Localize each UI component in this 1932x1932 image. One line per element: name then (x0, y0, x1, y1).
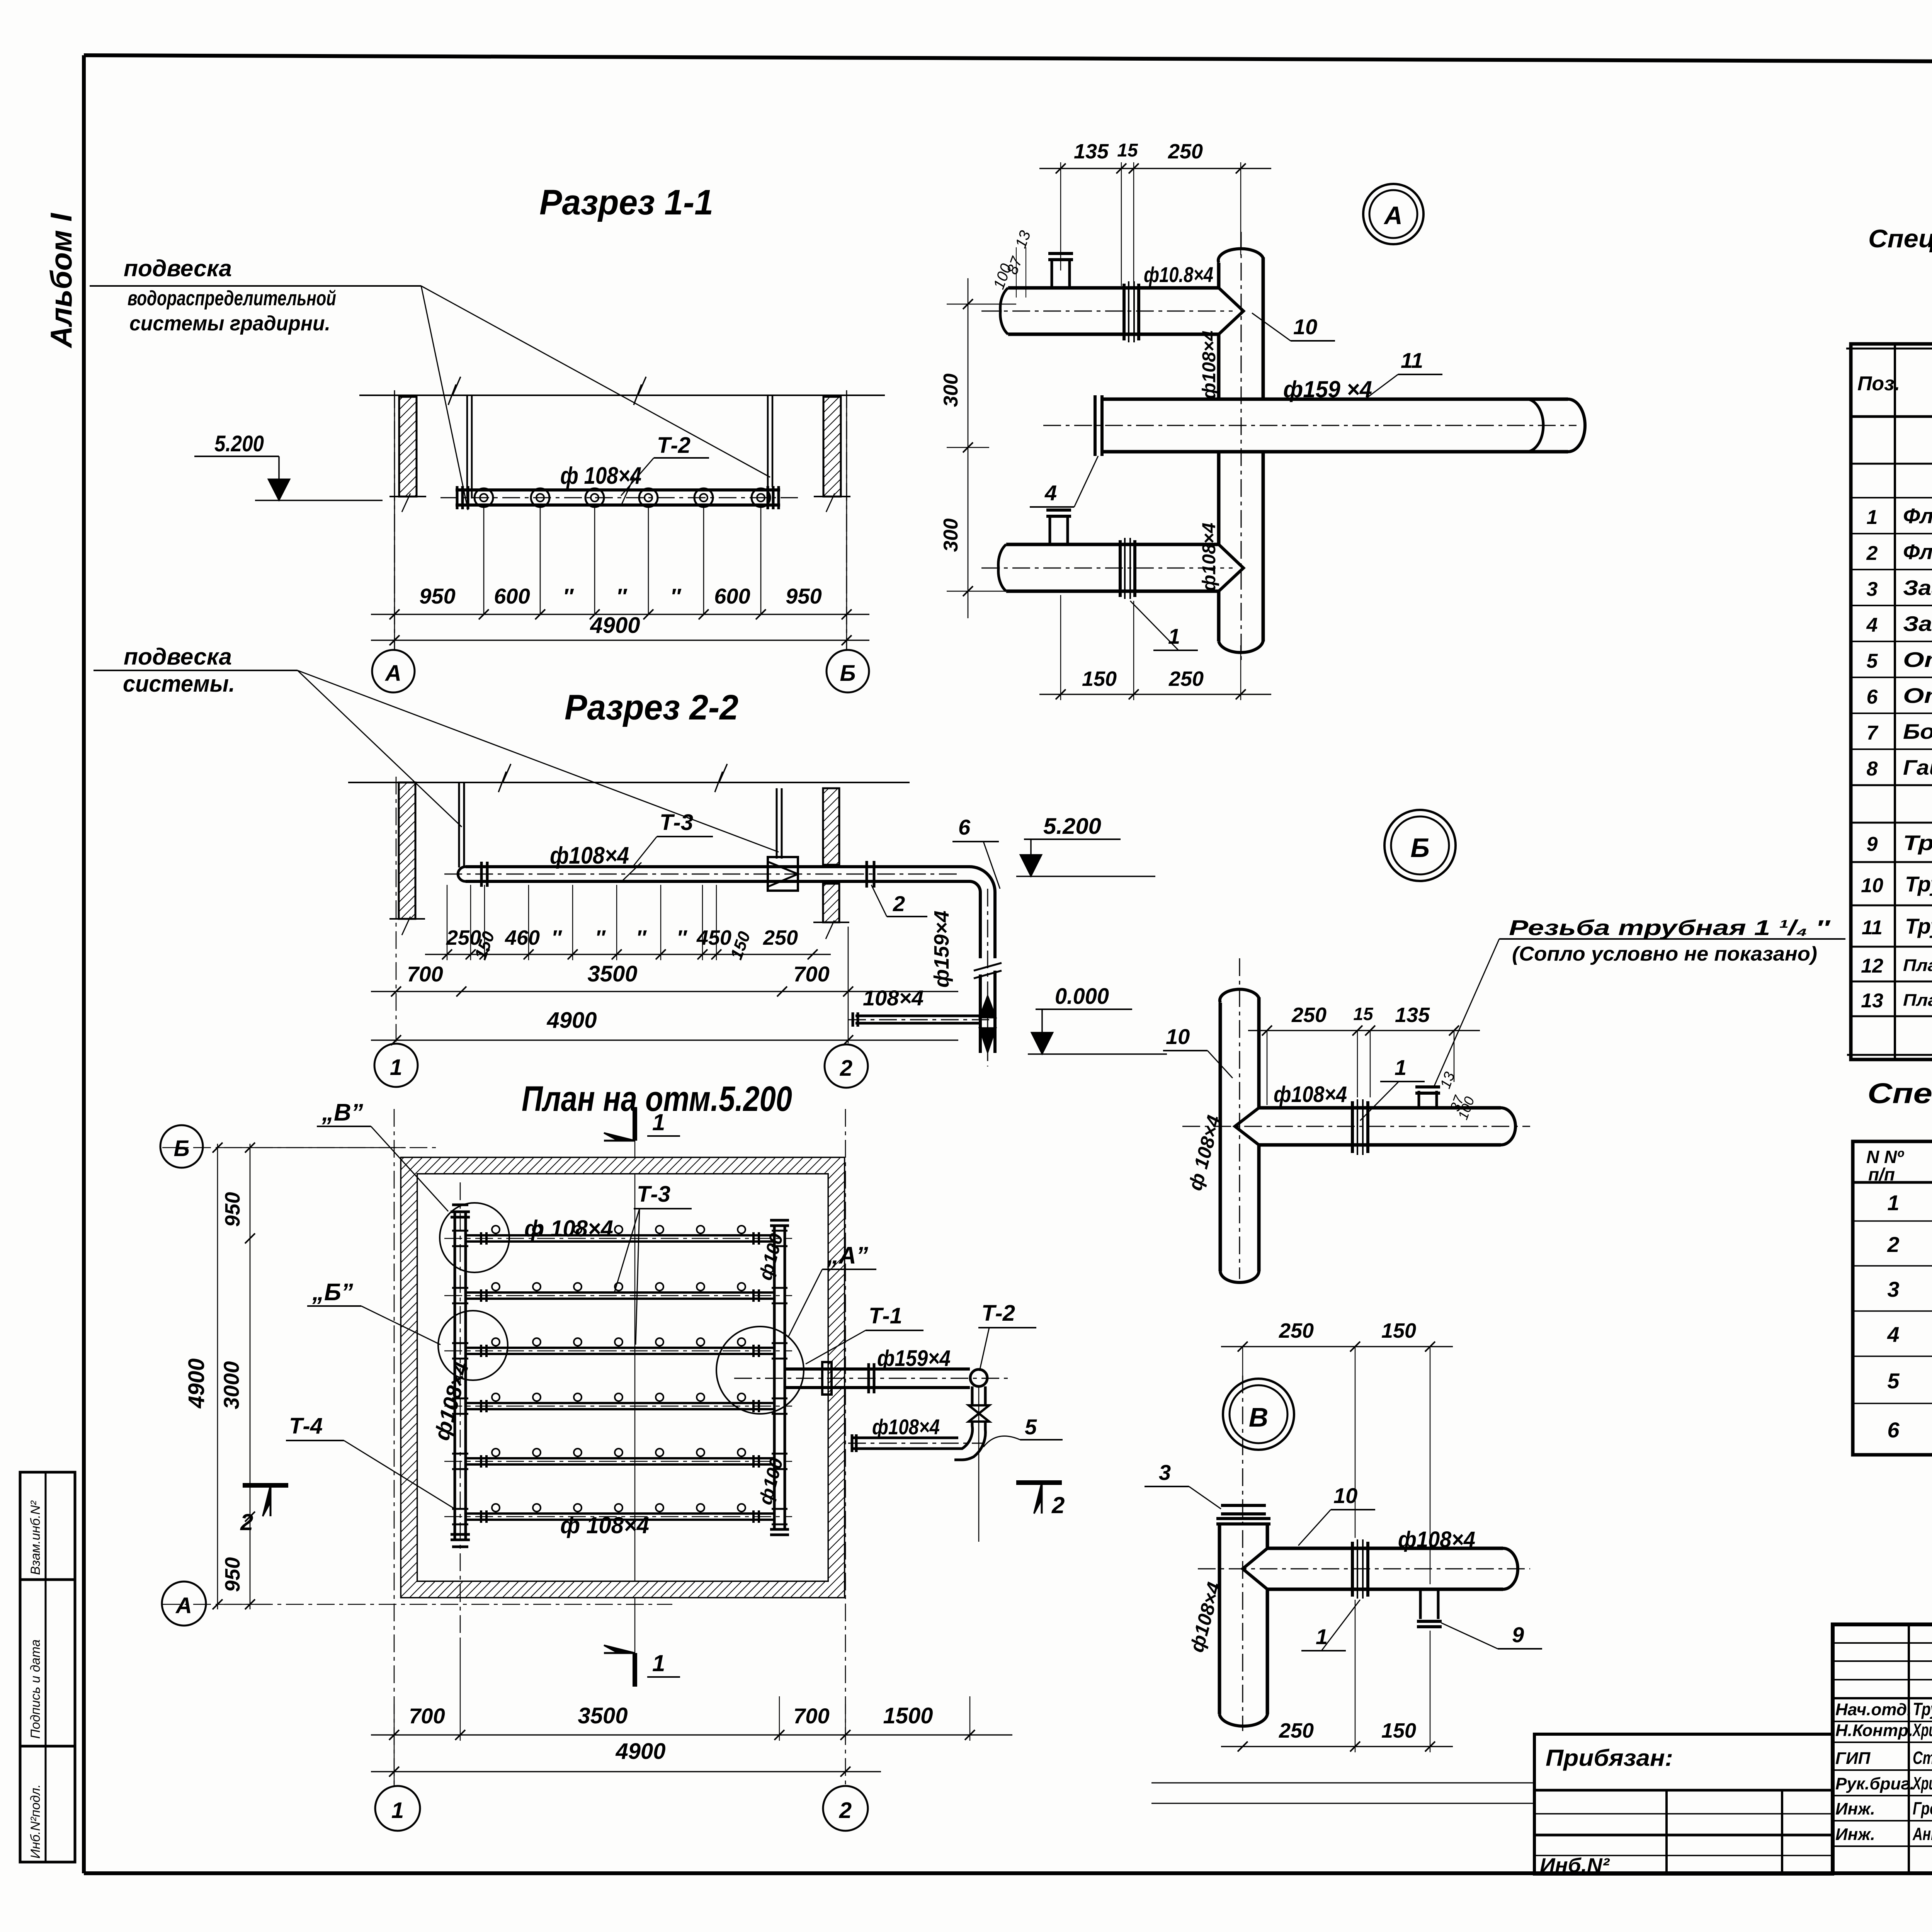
detail V flange pair (1351, 1542, 1354, 1597)
section mark 2 right plan (1016, 1480, 1062, 1485)
note leader (1434, 939, 1499, 1086)
svg-text:460: 460 (505, 926, 540, 949)
vertical dim chain inner plan (250, 1144, 251, 1609)
svg-text:(Сопло условно не показано): (Сопло условно не показано) (1512, 943, 1817, 965)
svg-text:9: 9 (1867, 833, 1878, 855)
bottom dim line 700-3500-700-1500 plan (371, 1734, 1012, 1735)
svg-text:„А”: „А” (827, 1242, 868, 1269)
flanges row 5 (480, 1455, 482, 1468)
elbow circle plan (970, 1369, 987, 1386)
collector bottom cap (770, 1528, 789, 1531)
svg-text:Спецификация, на детали водор: Спецификация, на детали водораспреде- (1867, 1077, 1932, 1109)
svg-text:ф108×4: ф108×4 (1398, 1527, 1475, 1552)
valve plan (969, 1405, 989, 1422)
svg-text:3500: 3500 (578, 1703, 628, 1728)
header top cap (451, 1211, 470, 1213)
svg-text:3000: 3000 (219, 1361, 243, 1410)
svg-text:1: 1 (652, 1650, 665, 1676)
detail B designation circle (1384, 810, 1456, 881)
axis line A section 1-1 (394, 390, 395, 649)
pipe T-3 section 2-2 (466, 865, 969, 868)
svg-text:15: 15 (1353, 1004, 1374, 1024)
svg-text:4900: 4900 (590, 613, 640, 638)
section cut trace 1-1 (634, 1121, 635, 1673)
axis lines section 2-2 (396, 777, 397, 1043)
svg-text:ф108×4: ф108×4 (1274, 1082, 1347, 1107)
svg-text:Н.Контр.: Н.Контр. (1835, 1721, 1913, 1740)
detail circle B on plan (438, 1311, 508, 1380)
drop pipe f159 section 2-2 (979, 975, 982, 1053)
grid circle 1 plan (375, 1786, 420, 1831)
f159 left end plate (1094, 395, 1097, 456)
svg-text:7: 7 (1867, 722, 1879, 744)
table 2 outer border (1853, 1141, 1932, 1455)
svg-text:Труба: Труба (1905, 914, 1932, 938)
leader lines to hangers (421, 286, 468, 510)
riser bottom open end V (1219, 1712, 1267, 1726)
grid circle A section 1-1 (372, 650, 415, 692)
detail A pipe f159 horizontal (1102, 398, 1526, 401)
detail V extension lines (1355, 1347, 1355, 1538)
svg-text:″: ″ (551, 926, 562, 949)
svg-text:2: 2 (1887, 1232, 1899, 1257)
svg-text:ф 108×4: ф 108×4 (560, 463, 641, 489)
svg-text:Инб.N²: Инб.N² (1540, 1854, 1610, 1877)
svg-text:Альбом I: Альбом I (44, 213, 78, 349)
svg-text:1500: 1500 (883, 1703, 933, 1728)
right wall hatch section 2-2 lower (823, 884, 839, 922)
table 1 column lines (1894, 344, 1896, 1060)
section mark 1 bottom (633, 1653, 637, 1687)
svg-text:Разрез 2-2: Разрез 2-2 (565, 688, 738, 727)
flanges row 1 (480, 1232, 482, 1245)
svg-text:ГИП: ГИП (1835, 1749, 1871, 1768)
svg-text:Нач.отд.: Нач.отд. (1835, 1700, 1912, 1719)
svg-text:А: А (1383, 201, 1403, 230)
right collector pipe plan (773, 1225, 776, 1530)
left margin stamp table (20, 1472, 75, 1862)
svg-text:Громов: Громов (1913, 1798, 1932, 1818)
axis line A plan horizontal (162, 1604, 672, 1605)
svg-text:п/п: п/п (1868, 1164, 1895, 1184)
pipe T-2 section 1-1 (456, 488, 780, 492)
svg-text:Резьба трубная 1 ¹/₄ ″: Резьба трубная 1 ¹/₄ ″ (1509, 915, 1831, 940)
drawing frame border (84, 55, 1932, 64)
detail A designation circle (1363, 184, 1423, 244)
svg-text:6: 6 (1867, 686, 1878, 708)
svg-text:Б: Б (173, 1136, 189, 1161)
detail A vertical riser (1217, 263, 1221, 288)
leaders to section 2-2 hangers (298, 670, 462, 827)
header bottom cap (451, 1533, 470, 1536)
grid circle B plan (160, 1125, 203, 1168)
svg-text:250: 250 (1168, 667, 1204, 690)
hanger rod left 2-2 (458, 782, 460, 867)
return pipe 108x4 plan (852, 1437, 958, 1439)
collector top cap (770, 1219, 789, 1222)
svg-text:″: ″ (563, 584, 574, 608)
svg-text:700: 700 (793, 962, 829, 986)
svg-text:5: 5 (1025, 1415, 1037, 1439)
svg-text:5.200: 5.200 (1043, 814, 1101, 839)
pipe left flange stack (456, 486, 459, 509)
svg-text:″: ″ (616, 584, 628, 608)
riser top cap arc B (1220, 989, 1259, 1003)
svg-text:3: 3 (1867, 578, 1878, 600)
axis line 2 plan (845, 1109, 846, 1789)
detail V nozzle stub down (1419, 1589, 1422, 1619)
flanges row 2 (480, 1289, 482, 1302)
svg-text:950: 950 (221, 1557, 244, 1592)
lateral pipe T-3 row 5 (466, 1457, 774, 1459)
axis line B section 1-1 (846, 390, 847, 650)
svg-text:Б: Б (840, 661, 855, 686)
svg-text:600: 600 (494, 584, 530, 608)
detail B riser pipe (1219, 1003, 1222, 1271)
ceiling line section 2-2 (348, 782, 910, 783)
svg-text:Прибязан:: Прибязан: (1546, 1745, 1673, 1771)
riser top cap arc (1218, 249, 1263, 263)
right wall hatch section 2-2 upper (823, 788, 839, 865)
tank inner wall line (417, 1173, 829, 1582)
svg-text:2: 2 (840, 1056, 852, 1081)
table 1 row (1851, 497, 1932, 498)
drain pipe 108x4 section 2-2 (855, 1015, 980, 1017)
label underline (90, 285, 421, 287)
svg-text:1: 1 (652, 1109, 665, 1135)
svg-text:подвеска: подвеска (124, 255, 232, 281)
svg-text:135: 135 (1395, 1003, 1430, 1027)
svg-text:300: 300 (940, 374, 962, 407)
nozzles row 1 (492, 1226, 500, 1233)
svg-text:13: 13 (1861, 990, 1883, 1012)
svg-text:А: А (384, 661, 401, 686)
svg-text:ф108×4: ф108×4 (550, 842, 629, 869)
svg-text:2: 2 (1866, 542, 1878, 565)
svg-text:950: 950 (419, 584, 455, 608)
detail A top dim line 135-15-250 (1039, 168, 1271, 169)
flanges row 3 (480, 1345, 482, 1357)
axis line 1 plan (394, 1109, 395, 1789)
lateral pipe T-3 row 1 (466, 1234, 774, 1236)
detail V cap poz3 (1221, 1504, 1266, 1507)
pipe break marks on drop (974, 963, 1002, 971)
svg-text:9: 9 (1512, 1622, 1524, 1647)
header junction ticks row 4 (452, 1398, 468, 1400)
svg-text:Поз.: Поз. (1857, 372, 1900, 395)
svg-text:700: 700 (409, 1704, 445, 1728)
svg-text:11: 11 (1862, 917, 1883, 939)
dimension line 950-600 section 1-1 (394, 395, 395, 641)
svg-text:ф10.8×4: ф10.8×4 (1144, 262, 1213, 287)
T-1 tee and pipe f159 to right (785, 1367, 970, 1371)
svg-text:Спецификация материалов на вод: Спецификация материалов на водораспредел… (1868, 224, 1932, 253)
svg-text:Болт М16×55.58.0115 ГОСТ 7798: Болт М16×55.58.0115 ГОСТ 7798-70, шт. (1903, 719, 1932, 743)
detail A top pipe vee joint (1219, 288, 1243, 334)
svg-text:Пластина I лист ТМКЩ-С-3×250×2: Пластина I лист ТМКЩ-С-3×250×250 9.9ГОСТ… (1903, 956, 1932, 975)
svg-text:1: 1 (1168, 624, 1180, 648)
lateral pipe T-3 row 4 (466, 1402, 774, 1404)
flange pair on pipe T-3 (480, 862, 483, 887)
title block vertical lines signature part (1908, 1624, 1910, 1873)
detail A bottom dim 150-250 (1039, 694, 1271, 695)
section mark 1 top (633, 1107, 637, 1141)
svg-text:ф159 ×4: ф159 ×4 (1283, 376, 1372, 402)
svg-text:″: ″ (677, 926, 687, 949)
svg-text:3500: 3500 (587, 961, 637, 986)
svg-text:Заглушка 159×8 ГОСТ 17379-83,: Заглушка 159×8 ГОСТ 17379-83, шт. (1903, 612, 1932, 636)
flanges row 6 (480, 1510, 482, 1523)
axis line B plan horizontal (162, 1147, 440, 1148)
detail A bottom pipe f108 (1006, 543, 1219, 546)
svg-text:Гайка М16.5.0115 ГОСТ 5915-70: Гайка М16.5.0115 ГОСТ 5915-70, шт. (1903, 755, 1932, 779)
detail V vee joint (1243, 1548, 1267, 1589)
svg-text:5: 5 (1867, 650, 1878, 672)
title block small top rows (1833, 1642, 1932, 1644)
svg-text:15: 15 (1117, 140, 1138, 161)
table 1 bottom double line (1847, 1054, 1932, 1056)
ceiling line section 1-1 (359, 395, 885, 396)
detail B nozzle stub (1418, 1091, 1420, 1108)
left wall hatch section 2-2 (399, 782, 415, 919)
svg-text:Т-2: Т-2 (981, 1301, 1015, 1326)
nozzles row 3 (492, 1338, 500, 1346)
detail A flange pair bottom pipe (1119, 540, 1122, 597)
table 1 header row (1851, 415, 1932, 418)
svg-text:600: 600 (714, 584, 750, 608)
svg-text:ф159×4: ф159×4 (930, 911, 953, 988)
header junction ticks row 1 (452, 1230, 468, 1232)
svg-text:450: 450 (696, 926, 731, 949)
svg-text:4900: 4900 (546, 1008, 597, 1033)
grid circle 2 section 2-2 (825, 1044, 868, 1088)
extension lines and dim row 1 section 2-2 (425, 954, 831, 955)
svg-text:700: 700 (793, 1704, 829, 1728)
svg-text:250: 250 (1279, 1319, 1314, 1342)
svg-text:В: В (1249, 1402, 1269, 1432)
svg-text:Подпись и дата: Подпись и дата (28, 1639, 43, 1739)
stray lines left of privyazan (1151, 1782, 1534, 1784)
svg-text:150: 150 (1082, 667, 1117, 690)
detail circle V on plan (440, 1203, 509, 1272)
svg-text:1: 1 (390, 1055, 402, 1080)
ceiling break marks 2-2 (498, 764, 511, 792)
svg-text:Христофориди: Христофориди (1912, 1720, 1932, 1740)
table 2 header (1853, 1181, 1932, 1184)
detail A flange pair top pipe (1122, 284, 1126, 340)
svg-text:Инж.: Инж. (1835, 1825, 1875, 1844)
svg-text:системы градирни.: системы градирни. (129, 312, 330, 335)
f159 right end cut (1526, 399, 1543, 452)
nozzles row 2 (492, 1283, 500, 1291)
header junction ticks row 5 (452, 1453, 468, 1455)
svg-text:водораспределительной: водораспределительной (128, 287, 336, 310)
underline podveska sistemy (94, 670, 298, 671)
svg-text:4: 4 (1866, 614, 1878, 636)
nozzles row 5 (492, 1449, 500, 1456)
flanges row 4 (480, 1400, 482, 1412)
svg-text:1: 1 (1867, 506, 1878, 529)
nozzle unions on pipe T-2 (474, 488, 493, 507)
flange pair on f159 (867, 1363, 870, 1393)
lateral pipe T-3 row 3 (466, 1347, 774, 1349)
title block signature rows (1833, 1697, 1932, 1699)
svg-text:1: 1 (1395, 1055, 1406, 1080)
svg-text:108×4: 108×4 (863, 986, 923, 1010)
detail V top dim 250-150 (1221, 1346, 1453, 1347)
svg-text:10: 10 (1293, 315, 1317, 339)
svg-text:„В”: „В” (321, 1099, 363, 1126)
svg-text:Христофориди: Христофориди (1912, 1773, 1932, 1793)
svg-text:Фланец 1-100 - 2.5 ст.20 ГОСТ: Фланец 1-100 - 2.5 ст.20 ГОСТ 12820-80, … (1903, 504, 1932, 528)
svg-text:ф108×4: ф108×4 (1199, 523, 1219, 591)
svg-text:5: 5 (1887, 1369, 1900, 1393)
svg-text:ф108×4: ф108×4 (872, 1415, 940, 1439)
detail V riser pipe (1218, 1524, 1221, 1714)
svg-text:10: 10 (1166, 1024, 1190, 1049)
svg-text:2: 2 (893, 891, 905, 916)
flange right of wall 2-2 (866, 861, 868, 888)
svg-text:ф 108×4: ф 108×4 (524, 1216, 613, 1242)
header junction ticks row 3 (452, 1342, 468, 1344)
svg-text:4900: 4900 (184, 1358, 209, 1408)
left header pipe plan (454, 1212, 456, 1540)
detail A nozzle on bottom pipe (1049, 515, 1051, 544)
grid circle 1 section 2-2 (374, 1044, 418, 1087)
svg-text:Т-3: Т-3 (660, 810, 693, 835)
drop pipe to valve plan (971, 1386, 974, 1406)
lateral pipe T-3 row 6 (466, 1512, 774, 1515)
ceiling break marks (448, 377, 461, 405)
svg-text:Инб.N²подл.: Инб.N²подл. (28, 1784, 43, 1859)
nozzles row 4 (492, 1393, 500, 1401)
svg-text:6: 6 (958, 815, 971, 839)
svg-text:250: 250 (1279, 1719, 1314, 1742)
title block outer border (1833, 1624, 1932, 1873)
svg-text:4900: 4900 (615, 1739, 665, 1764)
detail B vee joint (1235, 1108, 1259, 1145)
hanger rod right 2-2 (776, 788, 778, 859)
svg-text:12: 12 (1861, 955, 1883, 977)
svg-text:4: 4 (1887, 1322, 1899, 1347)
dimension line 4900 section 1-1 (371, 639, 869, 641)
grid circle A plan (162, 1582, 206, 1626)
svg-text:10: 10 (1861, 874, 1883, 897)
hanger rod right (767, 395, 769, 487)
svg-text:250: 250 (1291, 1003, 1327, 1027)
pipe left rounded end (458, 867, 466, 881)
detail A left dim 300-300 (968, 278, 969, 618)
detail B dim 250-15-135 (1248, 1030, 1480, 1031)
grid circle 2 plan (823, 1786, 868, 1831)
svg-text:Т-3: Т-3 (637, 1182, 670, 1207)
dim row 700-3500-700 section 2-2 (371, 991, 958, 992)
svg-text:ф 108×4: ф 108×4 (560, 1512, 649, 1538)
svg-text:1: 1 (1887, 1190, 1899, 1215)
svg-text:250: 250 (763, 926, 798, 949)
header junction ticks row 2 (452, 1287, 468, 1289)
elbow down section 2-2 (969, 867, 995, 958)
detail V designation circle (1223, 1379, 1294, 1450)
elbow curve to return pipe (954, 1422, 973, 1449)
svg-text:0.000: 0.000 (1055, 984, 1109, 1009)
svg-text:″: ″ (636, 926, 647, 949)
note underline (1499, 938, 1845, 940)
svg-text:Отвод 90° 159×6.0 ГОСТ 17375-: Отвод 90° 159×6.0 ГОСТ 17375-83, шт. (1903, 684, 1932, 707)
dim 4900 section 2-2 (371, 1039, 958, 1041)
svg-text:Рук.бриг.: Рук.бриг. (1835, 1774, 1914, 1793)
svg-text:системы.: системы. (123, 671, 235, 697)
svg-text:Стулова: Стулова (1913, 1748, 1932, 1768)
svg-text:950: 950 (786, 584, 821, 608)
tank outer wall plan (401, 1158, 844, 1597)
tank wall hatch band (401, 1158, 844, 1597)
pipe right open end V (1503, 1548, 1518, 1589)
svg-text:Фланец 1-150-2.5 ст.20 ГОСТ12: Фланец 1-150-2.5 ст.20 ГОСТ12820-80,шт. (1903, 540, 1932, 564)
svg-text:2: 2 (839, 1798, 852, 1823)
detail B horizontal pipe f108 (1259, 1106, 1501, 1110)
svg-text:135: 135 (1074, 140, 1109, 163)
svg-text:5.200: 5.200 (214, 431, 264, 456)
svg-text:2: 2 (240, 1509, 253, 1535)
arrow up into elbow (979, 995, 996, 1018)
svg-text:Отвод 90°108×4.0 ГОСТ 17375-8: Отвод 90°108×4.0 ГОСТ 17375-83, шт. (1903, 648, 1932, 672)
svg-text:8: 8 (1867, 758, 1878, 780)
svg-text:Разрез 1-1: Разрез 1-1 (539, 183, 713, 222)
svg-text:Б: Б (1410, 833, 1430, 863)
pipe right open end B (1501, 1108, 1515, 1145)
svg-text:4: 4 (1044, 481, 1057, 505)
svg-text:Взам.инб.N²: Взам.инб.N² (28, 1500, 43, 1575)
svg-text:Т-2: Т-2 (657, 433, 690, 458)
svg-text:300: 300 (940, 519, 962, 552)
svg-text:3: 3 (1159, 1460, 1171, 1485)
svg-text:700: 700 (407, 962, 443, 986)
svg-text:250: 250 (1168, 140, 1203, 163)
svg-text:Т-4: Т-4 (289, 1413, 323, 1439)
riser bottom cap arc (1219, 641, 1263, 653)
privyazan box (1534, 1734, 1833, 1874)
header junction ticks row 6 (452, 1508, 468, 1510)
svg-text:1: 1 (391, 1798, 404, 1823)
svg-text:Труба Р-32×2.8 ГОСТ 3262-75,: Труба Р-32×2.8 ГОСТ 3262-75, М (1903, 831, 1932, 855)
svg-text:подвеска: подвеска (124, 644, 232, 670)
detail circle A on plan (716, 1327, 804, 1414)
bottom dim 4900 plan (371, 1771, 881, 1772)
detail A nozzle on top pipe (1051, 258, 1053, 288)
svg-text:Заглушка 108×4 ГОСТ 17379-83,: Заглушка 108×4 ГОСТ 17379-83, шт. (1903, 576, 1932, 600)
tee plate box section 2-2 (768, 857, 798, 891)
right wall hatch section 1-1 (823, 397, 841, 497)
svg-text:10: 10 (1333, 1483, 1357, 1508)
nozzles row 6 (492, 1504, 500, 1512)
svg-text:2: 2 (1051, 1492, 1065, 1518)
table 1 outer border (1851, 344, 1932, 1060)
svg-text:Трубников: Трубников (1913, 1699, 1932, 1719)
svg-text:ф159×4: ф159×4 (877, 1346, 951, 1371)
svg-text:6: 6 (1887, 1418, 1900, 1442)
detail B flange pair (1351, 1101, 1354, 1153)
arrow head at drop bottom (979, 1028, 996, 1053)
detail V horizontal pipe (1267, 1547, 1503, 1550)
svg-text:А: А (175, 1593, 192, 1618)
svg-text:150: 150 (1381, 1719, 1416, 1742)
lateral pipe T-3 row 2 (466, 1291, 774, 1294)
svg-text:Пластина I лист ТМКЩ-С-3×300×3: Пластина I лист ТМКЩ-С-3×300×300 9.9ГОСТ… (1903, 991, 1932, 1010)
pipe right flange stack (767, 486, 769, 509)
svg-text:„Б”: „Б” (312, 1279, 353, 1306)
left wall hatch section 1-1 (399, 397, 417, 497)
